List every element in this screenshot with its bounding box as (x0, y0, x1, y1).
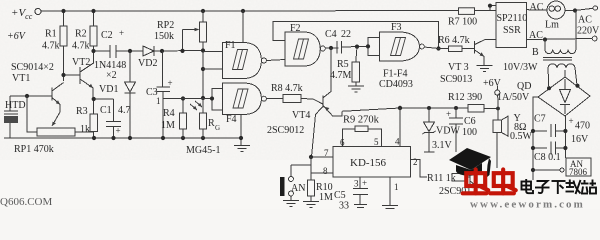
char xia (552, 181, 566, 194)
resistor R5 (330, 47, 360, 86)
zener VDW (423, 109, 461, 153)
resistor R8 (271, 83, 323, 104)
svg-text:16V: 16V (571, 134, 589, 145)
svg-text:+6V: +6V (483, 78, 502, 89)
wire rail drop to F1 (241, 9, 245, 43)
svg-text:MG45-1: MG45-1 (186, 145, 220, 156)
svg-text:F1: F1 (225, 40, 236, 51)
svg-text:1M: 1M (319, 192, 333, 203)
wire top +V rail (41, 9, 459, 12)
svg-text:SC9014×2: SC9014×2 (11, 62, 54, 73)
gate F2 (285, 23, 339, 66)
char zai (566, 180, 581, 195)
svg-text:VDW: VDW (436, 126, 460, 137)
svg-text:G: G (215, 124, 220, 132)
resistor R6 (438, 35, 475, 52)
regulator AN7806 (531, 158, 591, 177)
svg-text:C2: C2 (101, 30, 113, 41)
svg-text:AC: AC (578, 15, 592, 26)
capacitor C5 and KD pin3 (334, 177, 368, 212)
svg-text:4.7M: 4.7M (330, 70, 352, 81)
svg-text:VT1: VT1 (12, 73, 30, 84)
svg-text:R: R (208, 118, 215, 129)
gate F4 input bracket (210, 89, 223, 111)
svg-text:10V/3W: 10V/3W (503, 62, 538, 73)
gate F3 (379, 22, 449, 90)
transistor VT4 (267, 48, 342, 157)
transistor VT2 (61, 57, 93, 99)
svg-text:F4: F4 (226, 114, 237, 125)
svg-text:0.5W: 0.5W (510, 131, 533, 142)
IC KD-156 (323, 137, 418, 193)
potentiometer RP1 (14, 94, 94, 155)
svg-text:SSR: SSR (503, 25, 521, 36)
capacitor C4 (325, 29, 368, 54)
resistor R7 (448, 4, 496, 28)
transistor VT1 (10, 62, 64, 112)
svg-text:RP1 470k: RP1 470k (14, 144, 54, 155)
svg-text:R6 4.7k: R6 4.7k (438, 35, 470, 46)
transistor VT3 (440, 40, 496, 86)
wire KD pin1 to ground (382, 177, 398, 209)
watermark red character chong 1 (drawn strokes) (463, 170, 516, 194)
svg-text:R11 1k: R11 1k (427, 173, 456, 184)
svg-text:7806: 7806 (569, 167, 588, 177)
svg-text:RP2: RP2 (157, 20, 174, 31)
svg-text:+: + (362, 178, 367, 188)
capacitor C6 (446, 109, 477, 153)
capacitor C7 (531, 114, 590, 146)
svg-text:3: 3 (354, 179, 359, 189)
wire bridge bottom to regulator (564, 116, 566, 158)
svg-text:HTD: HTD (5, 100, 26, 111)
potentiometer RP2 (154, 9, 207, 100)
resistor R11 and KD pin2 (411, 160, 468, 185)
svg-text:+: + (446, 109, 451, 119)
wire feedback loop F2-F3 (273, 22, 441, 51)
svg-text:470: 470 (575, 121, 590, 132)
wire bridge left to rail (533, 97, 538, 180)
svg-text:KD-156: KD-156 (350, 157, 387, 169)
svg-text:B: B (532, 47, 539, 58)
capacitor C3 (146, 49, 173, 138)
transistor VT5 (439, 160, 479, 197)
svg-text:C7: C7 (534, 114, 546, 125)
svg-text:C5: C5 (334, 190, 346, 201)
svg-text:QD: QD (517, 81, 531, 92)
svg-text:8: 8 (323, 166, 328, 176)
speaker Y (493, 109, 533, 169)
svg-text:R7 100: R7 100 (448, 17, 477, 28)
watermark site name (dian zi xia zai zhan drawn strokes) (522, 179, 597, 194)
svg-text:R3: R3 (76, 106, 88, 117)
diode VD2 (138, 46, 203, 69)
svg-text:2SC9012: 2SC9012 (267, 125, 304, 136)
wire KD pin7 (309, 155, 333, 159)
svg-text:3.1V: 3.1V (432, 140, 453, 151)
svg-text:SC9013: SC9013 (440, 74, 472, 85)
resistor R3 (76, 99, 98, 138)
svg-text:4.7: 4.7 (118, 105, 131, 116)
svg-text:+6V: +6V (7, 31, 27, 42)
capacitor C8 (531, 142, 568, 164)
photoresistor RG MG45-1 (186, 99, 220, 157)
svg-text:CD4093: CD4093 (379, 79, 413, 90)
svg-text:1: 1 (394, 182, 399, 192)
svg-text:4: 4 (395, 137, 400, 147)
svg-text:F3: F3 (391, 22, 402, 33)
node +6V terminal (483, 78, 502, 109)
svg-text:SP2110: SP2110 (497, 13, 528, 24)
svg-text:R8 4.7k: R8 4.7k (271, 83, 303, 94)
svg-text:VD2: VD2 (138, 58, 157, 69)
svg-text:R4: R4 (163, 108, 175, 119)
svg-text:VD1: VD1 (99, 84, 118, 95)
bridge rectifier QD (497, 70, 590, 116)
svg-text:VT4: VT4 (292, 110, 310, 121)
wire KD pin8 (311, 172, 333, 174)
svg-text:AC: AC (529, 30, 543, 41)
svg-text:C6: C6 (464, 116, 476, 127)
ground under F4 (234, 115, 250, 152)
svg-text:+: + (569, 116, 574, 126)
svg-text:+: + (116, 126, 121, 136)
wire lamp to AC terminal (565, 6, 598, 13)
piezo element HTD (4, 96, 26, 138)
svg-text:1M: 1M (161, 120, 175, 131)
watermark graduation cap (449, 148, 491, 178)
pushbutton AN (280, 157, 311, 207)
svg-text:AN: AN (291, 183, 305, 194)
svg-text:R9 270k: R9 270k (343, 115, 380, 126)
node +Vcc terminal (7, 7, 41, 42)
transformer B (503, 11, 577, 88)
lamp Lm (527, 1, 566, 31)
char dian (522, 179, 534, 193)
svg-text:1A/50V: 1A/50V (497, 92, 530, 103)
svg-text:C1: C1 (100, 105, 112, 116)
char zhan (581, 180, 596, 194)
svg-text:×2: ×2 (106, 70, 117, 81)
svg-text:2: 2 (413, 157, 418, 167)
ground under R5 (348, 86, 364, 92)
resistor R4 (161, 96, 187, 138)
capacitor C2 (91, 28, 143, 62)
char zi (535, 181, 550, 193)
wire KD pin4 (399, 108, 401, 147)
svg-text:R2: R2 (75, 29, 87, 40)
svg-text:R5: R5 (337, 59, 349, 70)
svg-text:C8 0.1: C8 0.1 (534, 152, 561, 163)
resistor R12 (448, 92, 500, 112)
svg-text:100: 100 (462, 127, 477, 138)
wire AC lower (527, 15, 600, 42)
svg-text:www.eeworm.com: www.eeworm.com (470, 199, 585, 210)
svg-text:Q606.COM: Q606.COM (0, 196, 52, 208)
IC SP2110 SSR (496, 3, 527, 48)
label 1N4148 x2 (94, 60, 126, 81)
diode VD1 (99, 49, 136, 138)
wire +6V distribution (342, 106, 468, 112)
svg-text:4.7k: 4.7k (72, 41, 90, 52)
ground under VT3 (477, 66, 493, 72)
resistor R10 (303, 180, 333, 208)
svg-text:+: + (168, 78, 173, 88)
svg-text:220V: 220V (577, 26, 600, 37)
svg-text:C4: C4 (325, 29, 337, 40)
gate F4 (223, 83, 284, 125)
svg-text:4.7k: 4.7k (42, 41, 60, 52)
gate F3 input bracket (366, 38, 380, 56)
svg-text:VT 3: VT 3 (448, 62, 469, 73)
resistor R1 (42, 9, 67, 81)
wire F1 inputs (203, 52, 223, 70)
wire F4 input net (163, 98, 212, 100)
resistor R2 (72, 9, 97, 62)
svg-text:150k: 150k (154, 31, 174, 42)
resistor R9 (343, 115, 382, 147)
svg-text:+: + (119, 28, 124, 38)
wire bottom ground rail (4, 136, 241, 140)
svg-text:22: 22 (341, 29, 351, 40)
watermark red character chong 2 (490, 170, 516, 194)
svg-text:F1-F4: F1-F4 (383, 69, 407, 80)
svg-text:6: 6 (340, 138, 345, 148)
capacitor C1 (92, 97, 131, 138)
svg-text:R1: R1 (45, 29, 57, 40)
svg-text:AC: AC (530, 2, 544, 13)
svg-text:R12 390: R12 390 (448, 92, 482, 103)
svg-text:Lm: Lm (545, 20, 559, 31)
svg-text:5: 5 (374, 137, 379, 147)
svg-text:1: 1 (156, 96, 161, 106)
gate F1 (CD4093 schmitt NAND) (223, 40, 286, 79)
svg-text:33: 33 (339, 201, 349, 210)
svg-text:1k: 1k (80, 124, 90, 135)
